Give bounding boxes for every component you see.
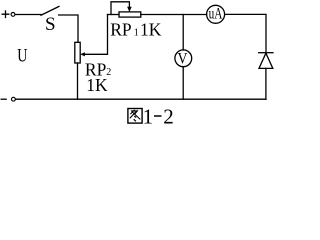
svg-text:U: U [17,45,27,66]
svg-text:1: 1 [143,104,154,126]
svg-text:S: S [45,14,56,35]
svg-text:uA: uA [209,5,223,22]
svg-text:1K: 1K [86,75,108,95]
svg-text:2: 2 [163,104,174,126]
svg-text:1: 1 [134,27,139,38]
svg-text:RP: RP [110,19,132,39]
svg-text:1K: 1K [140,19,162,39]
svg-text:V: V [178,51,189,68]
